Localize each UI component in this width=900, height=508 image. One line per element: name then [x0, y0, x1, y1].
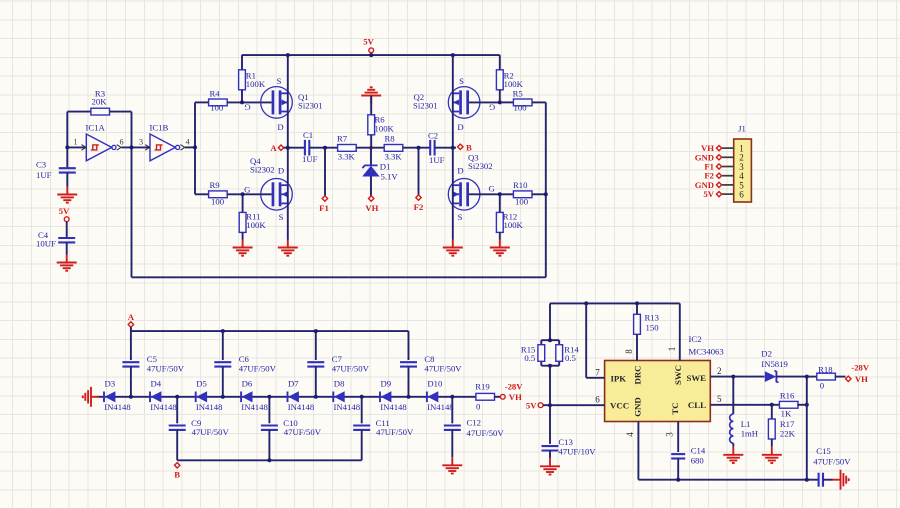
svg-text:C3: C3 — [36, 160, 46, 170]
svg-text:6: 6 — [595, 395, 600, 405]
svg-text:D: D — [457, 122, 463, 132]
svg-text:R10: R10 — [513, 180, 528, 190]
svg-text:5V: 5V — [59, 206, 70, 216]
svg-text:100: 100 — [515, 196, 529, 206]
svg-text:F1: F1 — [319, 203, 329, 213]
svg-text:R18: R18 — [818, 364, 833, 374]
svg-text:R4: R4 — [210, 89, 221, 99]
svg-text:Si2301: Si2301 — [413, 101, 438, 111]
svg-text:680: 680 — [691, 455, 705, 465]
svg-text:5.1V: 5.1V — [381, 172, 399, 182]
svg-text:4: 4 — [625, 432, 635, 437]
svg-text:100: 100 — [514, 102, 528, 112]
svg-text:IN4148: IN4148 — [334, 402, 361, 412]
svg-text:47UF/50V: 47UF/50V — [147, 363, 185, 373]
svg-text:R7: R7 — [337, 133, 348, 143]
svg-text:47UF/50V: 47UF/50V — [376, 427, 414, 437]
svg-text:20K: 20K — [92, 97, 108, 107]
svg-text:Si2302: Si2302 — [250, 165, 275, 175]
svg-text:0: 0 — [820, 381, 825, 391]
svg-text:IN4148: IN4148 — [288, 402, 315, 412]
svg-text:47UF/50V: 47UF/50V — [284, 427, 322, 437]
svg-text:VH: VH — [509, 392, 522, 402]
svg-text:D8: D8 — [334, 379, 345, 389]
svg-text:1mH: 1mH — [741, 429, 759, 439]
svg-text:5: 5 — [717, 394, 722, 404]
svg-text:D: D — [277, 122, 283, 132]
svg-text:100K: 100K — [375, 124, 395, 134]
svg-text:S: S — [458, 212, 463, 222]
svg-text:1: 1 — [73, 138, 77, 147]
svg-text:MC34063: MC34063 — [689, 347, 724, 357]
svg-text:3: 3 — [139, 138, 143, 147]
svg-text:0: 0 — [476, 401, 481, 411]
svg-text:R5: R5 — [513, 89, 523, 99]
svg-text:Si2302: Si2302 — [468, 161, 493, 171]
svg-text:-28V: -28V — [851, 363, 870, 373]
svg-text:IN4148: IN4148 — [380, 402, 407, 412]
svg-text:5V: 5V — [363, 37, 374, 47]
svg-text:D3: D3 — [105, 379, 116, 389]
svg-text:C2: C2 — [428, 131, 438, 141]
svg-text:S: S — [459, 76, 464, 86]
svg-text:2: 2 — [717, 366, 722, 376]
svg-text:R19: R19 — [475, 382, 489, 392]
svg-text:7: 7 — [595, 367, 600, 377]
svg-text:100: 100 — [211, 196, 225, 206]
svg-text:100: 100 — [210, 102, 224, 112]
svg-text:IC1B: IC1B — [150, 123, 169, 133]
svg-text:100K: 100K — [504, 220, 524, 230]
svg-text:CLL: CLL — [688, 400, 706, 410]
svg-text:3.3K: 3.3K — [385, 152, 403, 162]
svg-text:D: D — [457, 166, 463, 176]
svg-text:D7: D7 — [288, 379, 299, 389]
svg-text:L1: L1 — [741, 419, 751, 429]
svg-text:6: 6 — [120, 138, 124, 147]
svg-text:R8: R8 — [385, 133, 396, 143]
svg-text:D5: D5 — [196, 379, 207, 389]
svg-text:D10: D10 — [427, 379, 443, 389]
svg-text:47UF/50V: 47UF/50V — [467, 428, 505, 438]
svg-text:22K: 22K — [780, 429, 796, 439]
svg-text:D4: D4 — [151, 379, 162, 389]
svg-text:-28V: -28V — [505, 382, 524, 392]
svg-text:VCC: VCC — [610, 401, 629, 411]
svg-text:R16: R16 — [780, 391, 795, 401]
svg-text:3: 3 — [664, 432, 674, 437]
svg-text:C12: C12 — [467, 418, 481, 428]
svg-text:IN4148: IN4148 — [241, 402, 268, 412]
svg-text:8: 8 — [624, 349, 634, 354]
svg-text:F2: F2 — [414, 202, 424, 212]
svg-text:IN4148: IN4148 — [150, 402, 177, 412]
svg-text:1UF: 1UF — [302, 154, 318, 164]
svg-text:A: A — [128, 312, 135, 322]
svg-text:S: S — [277, 76, 282, 86]
svg-text:G: G — [489, 103, 495, 113]
svg-text:0.5: 0.5 — [565, 353, 576, 363]
svg-text:47UF/50V: 47UF/50V — [332, 363, 370, 373]
svg-text:GND: GND — [633, 397, 643, 417]
svg-text:100K: 100K — [504, 79, 524, 89]
svg-text:47UF/10V: 47UF/10V — [558, 446, 596, 456]
svg-text:100K: 100K — [246, 79, 266, 89]
svg-text:1UF: 1UF — [429, 155, 445, 165]
svg-text:IC1A: IC1A — [86, 123, 106, 133]
svg-text:Si2301: Si2301 — [298, 101, 323, 111]
svg-text:SWC: SWC — [673, 365, 683, 385]
svg-text:150: 150 — [646, 322, 660, 332]
svg-text:10UF: 10UF — [36, 239, 56, 249]
svg-text:1K: 1K — [781, 408, 792, 418]
svg-text:47UF/50V: 47UF/50V — [424, 363, 462, 373]
svg-text:IN4148: IN4148 — [427, 402, 454, 412]
svg-text:VH: VH — [855, 374, 868, 384]
svg-text:D2: D2 — [761, 349, 772, 359]
svg-text:4: 4 — [185, 138, 189, 147]
svg-text:C1: C1 — [303, 130, 313, 140]
svg-text:DRC: DRC — [633, 365, 643, 384]
svg-text:A: A — [270, 143, 277, 153]
svg-text:G: G — [488, 184, 494, 194]
svg-text:B: B — [174, 470, 180, 480]
svg-text:6: 6 — [739, 190, 744, 200]
svg-text:C15: C15 — [816, 446, 830, 456]
svg-text:1: 1 — [667, 347, 677, 352]
svg-text:IC2: IC2 — [689, 334, 702, 344]
svg-text:R17: R17 — [780, 419, 795, 429]
svg-text:C14: C14 — [691, 446, 706, 456]
svg-text:G: G — [244, 185, 250, 195]
svg-text:SWE: SWE — [686, 373, 706, 383]
svg-text:VH: VH — [365, 203, 378, 213]
svg-text:J1: J1 — [738, 124, 746, 134]
svg-text:47UF/50V: 47UF/50V — [192, 427, 230, 437]
svg-text:S: S — [279, 212, 284, 222]
svg-text:5V: 5V — [526, 401, 537, 411]
svg-text:IN4148: IN4148 — [104, 402, 131, 412]
svg-text:R13: R13 — [645, 313, 659, 323]
svg-text:IN4148: IN4148 — [196, 402, 223, 412]
svg-text:TC: TC — [670, 402, 680, 414]
svg-text:IPK: IPK — [611, 373, 627, 383]
svg-text:3.3K: 3.3K — [338, 152, 356, 162]
svg-text:0.5: 0.5 — [524, 353, 535, 363]
svg-text:47UF/50V: 47UF/50V — [813, 457, 851, 467]
svg-text:D9: D9 — [381, 379, 392, 389]
svg-text:IN5819: IN5819 — [761, 359, 788, 369]
svg-text:D: D — [278, 166, 284, 176]
svg-text:G: G — [244, 103, 250, 113]
svg-text:D6: D6 — [242, 379, 253, 389]
svg-text:R9: R9 — [210, 180, 220, 190]
svg-text:B: B — [466, 143, 472, 153]
svg-text:100K: 100K — [246, 220, 266, 230]
svg-text:47UF/50V: 47UF/50V — [239, 363, 277, 373]
svg-text:D1: D1 — [380, 162, 391, 172]
svg-text:5V: 5V — [703, 189, 714, 199]
svg-text:1UF: 1UF — [36, 170, 52, 180]
